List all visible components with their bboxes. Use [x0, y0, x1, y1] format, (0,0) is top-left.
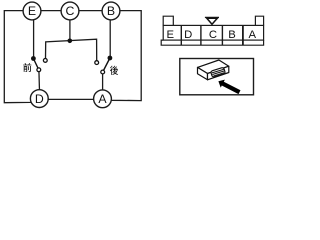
switch SW front: contact dot (E side, closed) [31, 56, 36, 61]
wire front switch pivot to D [38, 70, 41, 99]
connector face view: body row [161, 16, 263, 45]
svg-text:E: E [28, 4, 36, 18]
svg-text:C: C [66, 4, 75, 18]
wire rear switch pivot to A [102, 72, 104, 99]
svg-text:D: D [35, 92, 44, 106]
switch SW rear: open contact (C side) [95, 61, 99, 65]
svg-text:A: A [249, 29, 257, 41]
svg-text:A: A [98, 92, 107, 106]
svg-text:C: C [209, 29, 217, 41]
switch SW rear: lever [103, 58, 110, 72]
svg-text:B: B [228, 29, 236, 41]
label 後 (rear) [110, 66, 118, 75]
wire E to front switch contact [33, 11, 35, 59]
pin divider B/A [242, 25, 244, 45]
svg-text:D: D [184, 29, 192, 41]
connector 3D icon: front face [208, 66, 229, 80]
svg-text:E: E [167, 29, 175, 41]
keying marker above pin C [205, 17, 219, 24]
terminal A [94, 90, 112, 108]
junction node on C bus [68, 39, 73, 44]
terminal E [23, 2, 41, 20]
connector face: lock tab left [163, 16, 173, 25]
switch SW front: open contact (C side) [43, 59, 47, 63]
svg-text:B: B [107, 4, 115, 18]
pointer arrow to connector [218, 80, 240, 95]
terminal C [61, 2, 79, 20]
connector 3D icon: socket collar [211, 67, 226, 77]
pin divider D/C [200, 25, 202, 45]
pin divider C/B [221, 25, 223, 45]
switch SW rear: pivot [101, 70, 105, 74]
connector face: lock tab right [255, 16, 263, 25]
label 前 (front) [23, 63, 31, 72]
connector 3D icon: body top face [198, 60, 229, 80]
terminal B [102, 2, 120, 20]
wire outer loop (switch circuit frame) [4, 11, 141, 103]
pin divider E/D [180, 25, 182, 45]
wire C to junction [69, 11, 71, 41]
connector face: bottom flange [161, 40, 263, 45]
switch SW rear: contact dot (B side, closed) [108, 56, 113, 61]
connector 3D icon: left face [198, 67, 208, 79]
terminal D [30, 90, 48, 108]
inset box (connector location) [180, 59, 254, 95]
wire bus C-branch to both switch open contacts [46, 39, 97, 60]
switch SW front: pivot [37, 68, 41, 72]
wire B to rear switch contact [109, 11, 111, 58]
switch SW front: lever [33, 59, 38, 70]
